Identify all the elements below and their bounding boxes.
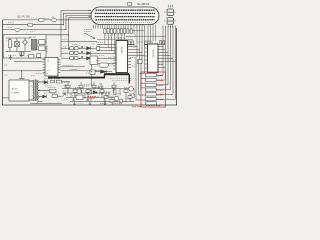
svg-text:SG 485-02: SG 485-02	[137, 3, 150, 6]
svg-text:POWER: POWER	[12, 93, 20, 95]
svg-text:DC-DC: DC-DC	[29, 37, 36, 39]
svg-text:AT89C: AT89C	[120, 47, 123, 54]
svg-text:MC145: MC145	[152, 50, 154, 58]
svg-text:QS1 FU SB1: QS1 FU SB1	[17, 17, 31, 19]
svg-text:AC/DC: AC/DC	[12, 88, 19, 91]
